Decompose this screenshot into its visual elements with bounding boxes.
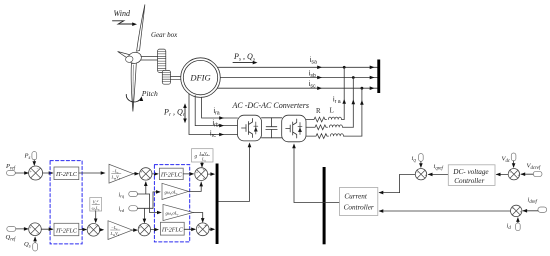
wire Qs to S6	[34, 238, 36, 243]
wire iq to S10	[420, 161, 422, 167]
svg-text:ir a: ir a	[333, 96, 341, 105]
wire current controller to converter U2	[294, 147, 340, 203]
svg-text:DC- voltage: DC- voltage	[452, 168, 489, 176]
svg-text:Controller: Controller	[454, 177, 484, 185]
stator wire b	[220, 77, 377, 79]
svg-text:+: +	[520, 210, 522, 214]
terminal irq	[129, 191, 138, 196]
svg-text:+: +	[30, 169, 32, 173]
node b junction	[352, 76, 355, 79]
terminal ird	[129, 206, 138, 211]
summer S8	[138, 223, 150, 235]
svg-text:Pitch: Pitch	[141, 89, 158, 98]
terminal Qref	[7, 227, 16, 232]
gain T1 -Ls/LmVs	[109, 164, 133, 183]
wire dcv controller to S10	[428, 173, 448, 175]
svg-text:−: −	[515, 168, 517, 172]
wire gw2 to S9	[193, 213, 203, 222]
gear 2	[162, 70, 170, 84]
svg-text:Pref: Pref	[5, 163, 16, 171]
svg-text:−: −	[37, 167, 39, 171]
wire Qref to sum	[16, 228, 28, 230]
svg-text:id: id	[507, 223, 512, 231]
terminal Qs	[33, 243, 38, 251]
svg-text:−: −	[147, 177, 149, 181]
R L branch c	[306, 134, 362, 139]
wire Ps to sum	[33, 160, 35, 165]
node a junction	[343, 66, 346, 69]
low speed shaft	[141, 57, 158, 60]
wire id loop to current controller	[380, 210, 511, 212]
svg-text:IT-2FLC: IT-2FLC	[55, 228, 78, 234]
dc link rail bottom	[262, 137, 282, 139]
control bus bar 2	[216, 164, 219, 245]
terminal idref	[538, 207, 547, 212]
svg-text:isc: isc	[309, 81, 316, 90]
stator wire c	[218, 87, 378, 89]
wire Vdc to S11	[513, 161, 515, 167]
svg-text:iq: iq	[412, 155, 417, 163]
wire gain1 to S2	[133, 173, 138, 175]
wire S2 to IT-2FLC3	[152, 173, 158, 175]
svg-text:L: L	[330, 108, 334, 115]
svg-text:−: −	[509, 171, 511, 175]
dashed box FLC1	[50, 161, 82, 244]
wire gblock to S5	[201, 162, 203, 166]
dc link rail top	[262, 117, 282, 119]
svg-text:Wind: Wind	[114, 9, 131, 18]
turbine blade up	[137, 5, 145, 52]
block dc voltage controller	[448, 165, 495, 186]
wire IT-2FLC1 to gain1	[79, 172, 104, 174]
wire irq cross to gain gw2	[150, 194, 161, 213]
svg-text:AC -DC-AC Converters: AC -DC-AC Converters	[232, 101, 309, 110]
svg-text:irq: irq	[119, 192, 125, 198]
svg-text:+: +	[203, 168, 205, 172]
block g LmVs/Ls	[192, 149, 214, 163]
rotor wire a	[202, 97, 238, 118]
svg-text:irc: irc	[210, 130, 216, 139]
svg-text:Qs: Qs	[24, 241, 31, 249]
terminal id	[516, 223, 521, 231]
grid bus bar	[377, 60, 380, 94]
svg-text:+: +	[204, 223, 206, 227]
summer S2	[140, 168, 152, 180]
block IT-2FLC 4	[160, 222, 184, 235]
svg-text:+: +	[88, 226, 90, 230]
terminal Vdc	[511, 153, 516, 161]
wire IT-2FLC3 to S5	[183, 173, 193, 175]
stator wire a	[218, 66, 378, 68]
svg-text:Pr , Qr: Pr , Qr	[163, 108, 186, 119]
svg-text:+: +	[518, 173, 520, 177]
wind arrow	[113, 21, 135, 24]
wire V block to S7	[95, 211, 97, 222]
riser wire b	[352, 78, 354, 128]
wire IT-2FLC2 to S7	[79, 229, 86, 231]
block current controller	[340, 188, 378, 216]
svg-text:IT-2FLC: IT-2FLC	[161, 228, 184, 234]
svg-text:+: +	[198, 226, 200, 230]
terminal Ps	[32, 152, 37, 160]
wire S5 to bus2	[208, 173, 214, 175]
gain gw2	[163, 204, 193, 220]
svg-text:idref: idref	[528, 197, 538, 205]
wire Vdcref to S11	[521, 173, 533, 175]
wire id to S12	[517, 218, 519, 223]
converter U2 grid side	[282, 115, 306, 142]
capacitor C dc-link	[266, 118, 277, 138]
summer S12	[511, 205, 522, 216]
block IT-2FLC 3	[159, 168, 183, 179]
terminal iq	[419, 154, 424, 162]
summer S1	[29, 166, 43, 180]
svg-text:−: −	[36, 232, 38, 236]
wire S11 to dcv controller	[496, 173, 508, 175]
svg-text:Vdcref: Vdcref	[527, 163, 541, 171]
summer S7	[87, 224, 100, 237]
rotor wire b	[195, 96, 237, 126]
turbine blade left	[118, 52, 130, 59]
svg-text:Ps: Ps	[24, 153, 31, 161]
svg-text:+: +	[29, 225, 31, 229]
pitch arrow arc	[126, 95, 141, 102]
svg-text:irb: irb	[213, 120, 219, 129]
wire Pref to sum	[15, 172, 28, 174]
converter U1 rotor side	[238, 115, 262, 141]
block IT-2FLC 1	[54, 167, 79, 180]
svg-text:isb: isb	[309, 70, 316, 79]
svg-text:Controller: Controller	[344, 204, 374, 212]
wire idref to S12	[523, 210, 538, 212]
turbine hub	[127, 51, 142, 65]
wire S8 to IT-2FLC4	[151, 229, 158, 231]
gear 1	[158, 49, 166, 72]
measurement bus bar 3	[323, 167, 326, 244]
svg-text:R: R	[316, 108, 321, 115]
svg-text:+: +	[196, 170, 198, 174]
high speed shaft	[171, 77, 182, 80]
R L branch b	[306, 125, 353, 130]
svg-text:−: −	[422, 168, 424, 172]
svg-text:iqref: iqref	[434, 163, 444, 171]
svg-text:IT-2FLC: IT-2FLC	[160, 173, 183, 179]
svg-text:ira: ira	[214, 108, 220, 117]
dashed box FLC2	[154, 165, 189, 242]
wire iq loop to current controller	[380, 174, 416, 192]
svg-text:IT-2FLC: IT-2FLC	[55, 172, 78, 178]
terminal Vdcref	[533, 171, 542, 176]
summer sign marks	[29, 167, 522, 236]
wire S1 to IT-2FLC1	[43, 172, 53, 174]
R L branch a	[306, 117, 344, 122]
svg-text:Qref: Qref	[6, 234, 17, 242]
svg-text:−: −	[511, 207, 513, 211]
wire gw1 to S5	[189, 182, 202, 191]
svg-text:−: −	[95, 224, 97, 228]
svg-text:−: −	[145, 224, 147, 228]
svg-text:−: −	[416, 171, 418, 175]
gain T2 -Ls/LmVs	[108, 221, 132, 240]
block IT-2FLC 2	[54, 223, 79, 235]
wire IT-2FLC4 to S9	[184, 228, 195, 230]
wire ird feedback down to S8	[138, 208, 154, 222]
svg-text:+: +	[425, 173, 427, 177]
svg-text:DFIG: DFIG	[189, 73, 210, 83]
terminal Pref	[7, 171, 16, 176]
svg-text:Vdc: Vdc	[502, 156, 511, 164]
wire gain2 to S8	[132, 229, 136, 231]
summer S6	[29, 223, 42, 236]
svg-text:+: +	[139, 226, 141, 230]
node c junction	[361, 87, 364, 90]
svg-text:+: +	[203, 177, 205, 181]
block Vs^2/wsLs	[90, 198, 102, 212]
Pr Qr double arrow	[184, 106, 186, 121]
Ps Qs arrow	[233, 62, 255, 64]
svg-text:Current: Current	[344, 193, 367, 201]
svg-text:Gear box: Gear box	[151, 31, 178, 39]
riser wire c	[361, 88, 363, 136]
turbine blade down	[131, 63, 136, 112]
svg-text:isa: isa	[310, 57, 317, 66]
wire S6 to IT-2FLC2	[41, 228, 52, 230]
wire S9 to bus2	[209, 228, 214, 230]
rotor wire c	[189, 94, 238, 135]
svg-text:+: +	[140, 170, 142, 174]
wire bus2 to converter U1	[219, 146, 250, 202]
summer S11	[508, 169, 519, 180]
wire irq feedback up to S2	[138, 182, 150, 194]
summer S9	[196, 223, 209, 236]
riser wire a	[343, 67, 345, 119]
gain gw1	[162, 183, 189, 199]
DFIG machine	[181, 58, 221, 98]
wire S7 to gain2	[100, 229, 103, 231]
svg-text:ird: ird	[119, 207, 125, 213]
svg-text:Ps , Qs: Ps , Qs	[233, 52, 255, 63]
summer S5	[195, 168, 208, 181]
wire ird cross to gain gw1	[153, 192, 160, 208]
summer S10	[415, 169, 426, 180]
